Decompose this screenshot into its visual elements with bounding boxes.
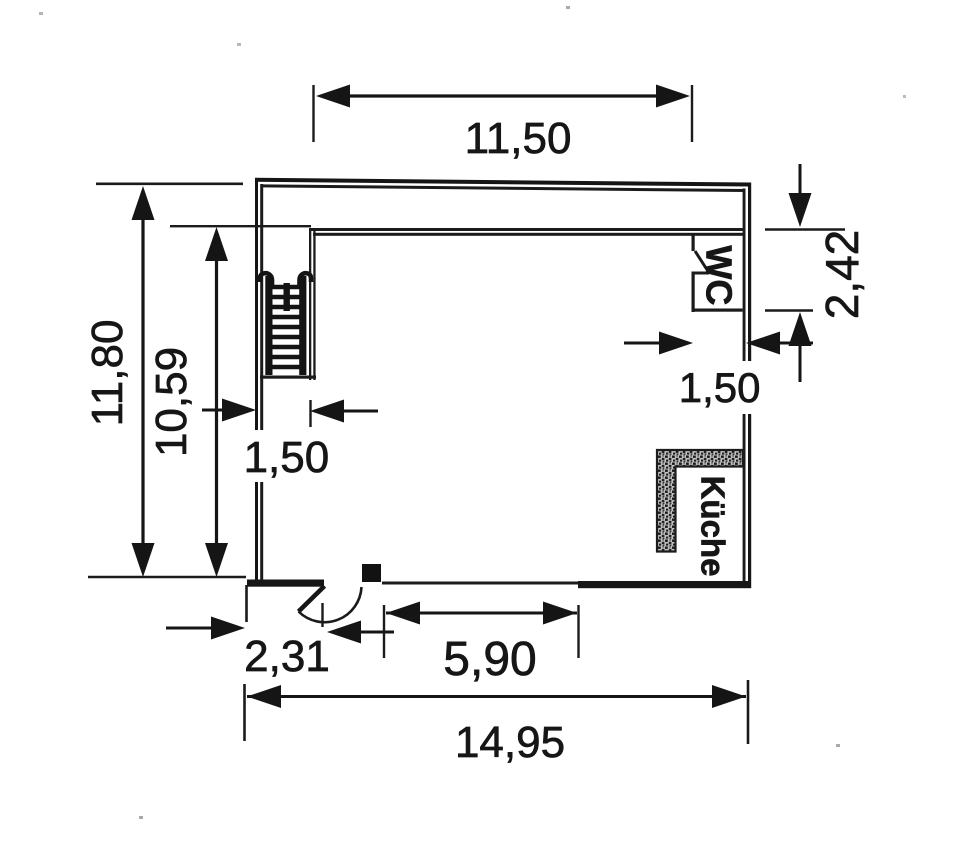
stair left handrail hook <box>260 273 272 286</box>
dim line <box>247 695 746 698</box>
svg-text:2,31: 2,31 <box>244 632 330 681</box>
extension line top <box>765 228 845 230</box>
dimension 2,31 <box>166 585 394 681</box>
extension line bottom <box>88 576 246 579</box>
scan speck upper left area <box>237 43 241 46</box>
arrow up <box>205 227 228 261</box>
extension line of 10,59 to inner wall <box>170 225 311 227</box>
dimension 14,95 <box>245 680 749 767</box>
WC door leaf <box>695 251 709 272</box>
svg-text:10,59: 10,59 <box>147 347 196 457</box>
svg-text:11,50: 11,50 <box>465 114 572 163</box>
entrance door swing arc <box>299 587 362 622</box>
arrow pointing up <box>789 312 812 346</box>
arrow pointing right <box>659 332 693 355</box>
svg-text:1,50: 1,50 <box>244 433 330 482</box>
svg-text:WC: WC <box>699 245 740 305</box>
WC bottom wall <box>692 309 743 312</box>
outer wall bottom left segment <box>247 580 324 587</box>
svg-text:2,42: 2,42 <box>816 230 868 320</box>
stair right rail <box>299 276 306 375</box>
scan speck top middle <box>566 6 570 9</box>
svg-text:1,50: 1,50 <box>679 364 761 411</box>
svg-text:Küche: Küche <box>694 476 731 577</box>
tail left <box>166 627 213 630</box>
arrow left <box>247 685 281 708</box>
stair treads <box>272 287 300 367</box>
tail bottom <box>799 344 802 382</box>
tail top <box>799 164 802 195</box>
dimension 1,50 left (stairs) <box>202 399 378 483</box>
arrow pointing down <box>789 193 812 227</box>
svg-text:5,90: 5,90 <box>443 633 536 686</box>
tick left <box>243 684 246 741</box>
tick right <box>691 85 693 142</box>
outer wall bottom middle thin line <box>382 582 578 585</box>
outer wall top <box>255 178 751 192</box>
arrow pointing left <box>746 332 780 355</box>
stair left rail <box>265 276 272 375</box>
white gap in left wall behind 1,50 label <box>252 430 266 482</box>
arrow up <box>132 186 155 220</box>
scan speck bottom left <box>139 816 143 819</box>
arrow pointing right <box>222 399 256 422</box>
svg-text:14,95: 14,95 <box>455 718 565 767</box>
arrow down <box>205 543 228 577</box>
entrance door leaf <box>299 586 325 612</box>
tick right <box>577 605 579 658</box>
dim line <box>349 94 657 97</box>
WC left wall upper segment <box>692 235 695 251</box>
arrow pointing right <box>211 617 245 640</box>
dimension 2,42 <box>765 164 868 382</box>
entrance door post <box>362 564 381 582</box>
dimension 5,90 <box>384 602 579 687</box>
scan speck bottom right <box>836 744 840 747</box>
extension line top <box>96 183 243 186</box>
tail left <box>624 342 661 345</box>
tick at stair wall <box>309 400 311 427</box>
stairs <box>260 273 311 375</box>
tick upper at wall <box>245 585 248 622</box>
tick left <box>383 605 385 658</box>
tick at door <box>321 603 323 627</box>
white gap in right wall behind 1,50 label <box>740 361 753 414</box>
dim line <box>141 218 144 545</box>
dim line <box>215 259 218 545</box>
kitchen wall L-shape (hatched) <box>657 450 743 552</box>
dimension 11,50 <box>314 85 693 164</box>
dimension 10,59 <box>147 227 228 577</box>
scan speck top left <box>39 12 43 15</box>
outer wall right <box>743 183 752 589</box>
arrow pointing left <box>310 400 344 423</box>
stair right handrail hook <box>300 273 312 286</box>
arrow pointing left <box>327 621 361 644</box>
WC left wall lower segment <box>692 272 695 312</box>
WC door jamb stub <box>692 272 710 275</box>
scan speck right <box>903 95 906 98</box>
tail right <box>359 631 394 634</box>
svg-text:11,80: 11,80 <box>83 320 132 427</box>
tick right <box>747 680 750 744</box>
tick left <box>312 85 314 142</box>
stair enclosure bottom wall <box>260 376 316 379</box>
arrow down <box>132 543 155 577</box>
arrow right <box>656 85 690 108</box>
extension line bottom <box>765 309 813 311</box>
tail right <box>778 342 813 345</box>
arrow right <box>712 685 746 708</box>
outer wall bottom right segment <box>578 581 751 588</box>
tail left <box>202 409 224 412</box>
outer wall left <box>255 178 263 586</box>
dim line <box>386 612 577 615</box>
dimension 11,80 <box>83 184 246 577</box>
inner corridor wall <box>311 228 743 236</box>
arrow left <box>386 602 420 625</box>
arrow right <box>543 602 577 625</box>
stair enclosure right wall <box>309 228 316 380</box>
tail right <box>342 410 378 413</box>
dimension 1,50 right (WC) <box>624 332 813 412</box>
arrow left <box>316 85 350 108</box>
stair middle bar <box>284 283 290 311</box>
